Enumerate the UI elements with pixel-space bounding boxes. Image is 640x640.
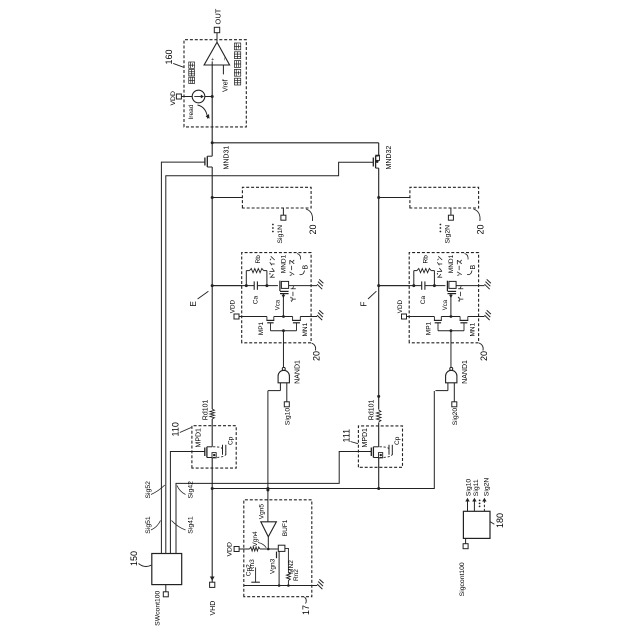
svg-text:Vca: Vca — [275, 299, 281, 310]
svg-text:+: + — [211, 57, 217, 60]
svg-text:Sig42: Sig42 — [187, 481, 194, 499]
svg-text:BUF1: BUF1 — [282, 519, 289, 536]
svg-text:Vref: Vref — [223, 79, 230, 92]
svg-text:MND1: MND1 — [281, 254, 288, 273]
svg-text:Sig52: Sig52 — [145, 481, 152, 499]
svg-text:20: 20 — [308, 224, 318, 234]
svg-text:MPD1: MPD1 — [362, 428, 369, 448]
svg-text:Ca: Ca — [253, 296, 260, 305]
svg-text:Rb: Rb — [255, 255, 262, 264]
svg-text:Vgn5: Vgn5 — [259, 504, 266, 520]
svg-text:−: − — [222, 57, 228, 60]
svg-text:Cp: Cp — [228, 436, 235, 445]
svg-text:MN1: MN1 — [302, 322, 309, 336]
svg-text:VHD: VHD — [210, 601, 217, 616]
svg-text:Sig2N: Sig2N — [445, 225, 452, 244]
svg-text:Sig10: Sig10 — [465, 479, 472, 497]
svg-text:OUT: OUT — [213, 8, 222, 24]
svg-text:Rd101: Rd101 — [202, 399, 209, 420]
svg-text:Sig51: Sig51 — [145, 516, 152, 534]
svg-text:Cn2: Cn2 — [245, 564, 252, 576]
svg-text:Sig2N: Sig2N — [484, 478, 491, 497]
svg-text:Iread: Iread — [188, 104, 195, 119]
svg-text:150: 150 — [129, 551, 139, 566]
svg-text:VDD: VDD — [170, 91, 177, 105]
svg-text:MND31: MND31 — [224, 146, 231, 170]
svg-text:VDD: VDD — [230, 299, 237, 313]
svg-text:Rd101: Rd101 — [368, 399, 375, 420]
svg-text:VDD: VDD — [227, 542, 234, 556]
svg-text:160: 160 — [164, 49, 174, 64]
svg-text:Sig11: Sig11 — [473, 479, 480, 496]
svg-text:17: 17 — [301, 605, 311, 615]
svg-text:Sig10: Sig10 — [284, 408, 291, 426]
svg-text:111: 111 — [341, 429, 351, 443]
svg-text:MND32: MND32 — [386, 146, 393, 170]
svg-text:MPD1: MPD1 — [195, 428, 202, 448]
svg-text:SWcont100: SWcont100 — [155, 590, 162, 625]
svg-text:Sig1N: Sig1N — [277, 225, 284, 244]
svg-text:Cp: Cp — [394, 436, 401, 445]
svg-text:20: 20 — [311, 351, 321, 361]
svg-text:F: F — [360, 302, 369, 307]
svg-text:Sig20: Sig20 — [452, 408, 459, 426]
svg-text:E: E — [189, 301, 198, 306]
svg-text:Sig41: Sig41 — [187, 516, 194, 534]
svg-text:Vgn4: Vgn4 — [252, 531, 259, 547]
svg-text:NAND1: NAND1 — [295, 360, 302, 384]
svg-text:Rn2: Rn2 — [293, 569, 300, 581]
svg-text:B: B — [302, 265, 309, 270]
svg-text:MP1: MP1 — [258, 321, 265, 335]
svg-text:110: 110 — [170, 422, 180, 436]
svg-text:180: 180 — [495, 513, 505, 528]
svg-text:MND1: MND1 — [448, 254, 455, 273]
svg-text:Sigcont100: Sigcont100 — [459, 562, 466, 596]
svg-text:Vgn3: Vgn3 — [270, 558, 277, 574]
